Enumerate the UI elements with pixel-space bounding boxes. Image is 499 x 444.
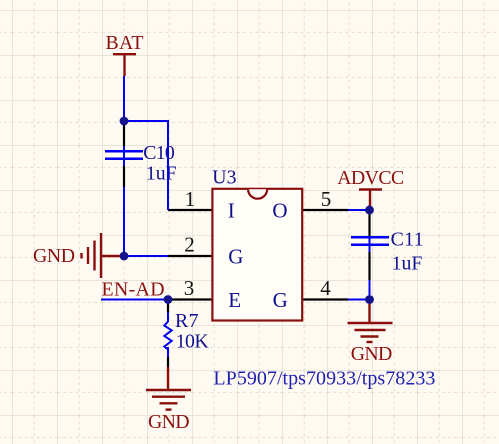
svg-text:EN-AD: EN-AD: [102, 278, 165, 300]
svg-text:1uF: 1uF: [146, 163, 177, 185]
svg-text:GND: GND: [351, 343, 393, 365]
svg-text:I: I: [228, 199, 235, 223]
svg-text:1: 1: [185, 187, 196, 211]
svg-text:4: 4: [320, 276, 331, 300]
svg-text:G: G: [228, 244, 243, 268]
svg-text:LP5907/tps70933/tps78233: LP5907/tps70933/tps78233: [213, 368, 435, 390]
svg-text:C11: C11: [391, 229, 424, 251]
svg-text:O: O: [272, 199, 287, 223]
svg-text:GND: GND: [148, 411, 190, 433]
svg-text:R7: R7: [175, 310, 199, 332]
svg-text:BAT: BAT: [106, 32, 144, 54]
svg-text:C10: C10: [143, 142, 175, 164]
svg-text:3: 3: [184, 276, 195, 300]
svg-text:U3: U3: [212, 167, 236, 189]
svg-text:ADVCC: ADVCC: [337, 167, 404, 189]
svg-text:G: G: [273, 288, 288, 312]
svg-text:5: 5: [321, 187, 332, 211]
svg-text:GND: GND: [33, 245, 75, 267]
svg-text:1uF: 1uF: [392, 252, 423, 274]
svg-text:E: E: [228, 288, 241, 312]
svg-text:2: 2: [184, 232, 195, 256]
svg-text:10K: 10K: [176, 331, 210, 353]
